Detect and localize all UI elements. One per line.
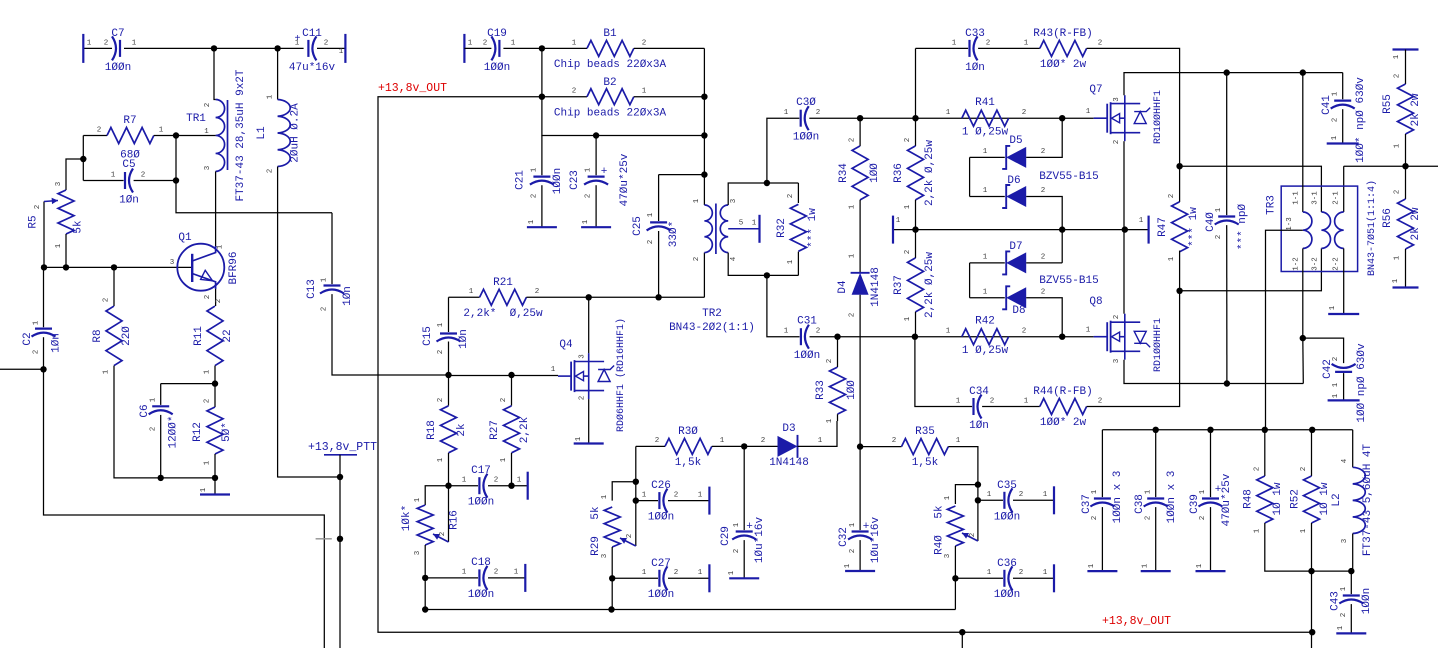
svg-text:2: 2	[1041, 289, 1046, 297]
svg-text:1ØØn: 1ØØn	[468, 589, 494, 601]
svg-text:1: 1	[693, 198, 701, 203]
svg-text:R16: R16	[449, 510, 461, 530]
svg-text:2: 2	[34, 205, 42, 210]
svg-text:33Ø*: 33Ø*	[668, 221, 680, 247]
svg-text:1: 1	[642, 492, 647, 500]
svg-text:R11: R11	[193, 326, 205, 346]
svg-text:3: 3	[1113, 97, 1121, 102]
svg-text:2: 2	[733, 549, 741, 554]
svg-text:R21: R21	[493, 277, 513, 289]
wire Q4 source to ground bar	[588, 399, 590, 443]
svg-text:R42: R42	[975, 316, 995, 328]
svg-text:1: 1	[1091, 489, 1099, 494]
svg-text:1: 1	[1332, 91, 1340, 96]
capacitor C42 100 np0 630v	[1335, 371, 1352, 373]
wire Q7 gate rail	[860, 117, 1094, 119]
svg-text:1: 1	[462, 477, 467, 485]
svg-text:1: 1	[698, 492, 703, 500]
svg-text:+13,8v_PTT: +13,8v_PTT	[308, 441, 377, 454]
svg-text:R8: R8	[92, 329, 104, 342]
svg-text:5k: 5k	[73, 220, 85, 234]
svg-text:1: 1	[733, 522, 741, 527]
resistor R32 *** 1w	[797, 183, 799, 203]
svg-text:R36: R36	[893, 163, 905, 183]
wire R11/C6/R12 junction	[212, 380, 218, 386]
svg-text:1: 1	[983, 289, 988, 297]
svg-text:1ØØn: 1ØØn	[793, 132, 819, 144]
capacitor C37 100n x 3	[1101, 430, 1103, 497]
svg-text:1: 1	[437, 457, 445, 462]
svg-text:1: 1	[500, 457, 508, 462]
svg-text:2: 2	[585, 194, 593, 199]
svg-text:2: 2	[483, 40, 488, 48]
svg-text:TR1: TR1	[186, 113, 206, 125]
svg-text:R55: R55	[1382, 94, 1394, 114]
wire TR2 secondary top loop	[728, 183, 798, 205]
svg-text:2: 2	[103, 298, 111, 303]
svg-text:+: +	[601, 166, 608, 178]
svg-text:C32: C32	[838, 527, 850, 547]
svg-text:C2: C2	[22, 332, 34, 345]
svg-text:1ØØ* 2w: 1ØØ* 2w	[1040, 59, 1087, 71]
svg-text:2: 2	[1394, 190, 1402, 195]
svg-text:1: 1	[204, 460, 212, 465]
svg-text:5k: 5k	[590, 506, 602, 520]
wire PTT net	[339, 455, 341, 648]
transformer TR3 winding 2	[1335, 212, 1344, 248]
svg-text:R34: R34	[838, 163, 850, 183]
svg-text:1ØØ npØ 63Øv: 1ØØ npØ 63Øv	[1356, 343, 1368, 423]
svg-text:2: 2	[500, 398, 508, 403]
svg-text:1: 1	[956, 437, 961, 445]
svg-text:D4: D4	[837, 280, 849, 294]
svg-text:2: 2	[204, 103, 212, 108]
svg-text:+13,8v_OUT: +13,8v_OUT	[378, 82, 447, 95]
wire gray stub	[316, 538, 332, 540]
svg-text:R52: R52	[1290, 489, 1302, 509]
svg-text:1: 1	[1142, 563, 1150, 568]
svg-text:1: 1	[849, 253, 857, 258]
svg-text:1: 1	[1254, 528, 1262, 533]
svg-text:2,2k Ø,25w: 2,2k Ø,25w	[924, 252, 936, 318]
svg-text:1: 1	[1392, 278, 1400, 283]
svg-text:C41: C41	[1321, 95, 1333, 115]
svg-text:2ØuH Ø.2A: 2ØuH Ø.2A	[290, 103, 302, 163]
svg-text:2: 2	[1145, 516, 1153, 521]
svg-text:Q4: Q4	[559, 339, 573, 351]
diode D4 1N4148	[852, 273, 869, 295]
svg-text:1: 1	[987, 491, 992, 499]
svg-text:1-3: 1-3	[1286, 217, 1294, 231]
svg-text:2: 2	[693, 257, 701, 262]
svg-text:2: 2	[1394, 74, 1402, 79]
svg-text:C39: C39	[1189, 494, 1201, 514]
wire feedback rail lower	[1180, 248, 1322, 290]
svg-text:1: 1	[818, 437, 823, 445]
svg-text:2,2k Ø,25w: 2,2k Ø,25w	[924, 140, 936, 206]
svg-text:1: 1	[582, 219, 590, 224]
wire B1/B2 right junction	[703, 48, 705, 205]
svg-text:2: 2	[531, 194, 539, 199]
svg-text:2: 2	[321, 307, 329, 312]
svg-text:1: 1	[1086, 108, 1091, 116]
svg-text:1: 1	[983, 148, 988, 156]
svg-text:1: 1	[896, 217, 901, 225]
svg-text:C7: C7	[111, 28, 124, 40]
svg-text:1: 1	[642, 88, 647, 96]
capacitor C34 10n	[972, 398, 974, 415]
svg-text:1ØØn: 1ØØn	[648, 512, 674, 524]
transformer TR3 winding 1 tap 1-3	[1266, 230, 1303, 430]
svg-text:1 Ø,25w: 1 Ø,25w	[962, 127, 1009, 139]
svg-text:C4Ø: C4Ø	[1205, 212, 1217, 232]
resistor R12 50*	[214, 384, 216, 407]
capacitor C32 10u*16v	[857, 443, 863, 449]
inductor L2 FT37-43 5,60uH 4T	[1352, 430, 1354, 468]
junction	[211, 45, 217, 51]
transistor Q1 BFR96	[177, 244, 224, 291]
resistor R18 2k	[448, 375, 450, 406]
svg-text:1: 1	[204, 369, 212, 374]
svg-text:2: 2	[141, 172, 146, 180]
svg-text:1: 1	[849, 204, 857, 209]
resistor R48 10 1w	[1264, 430, 1266, 476]
svg-text:1: 1	[1024, 398, 1029, 406]
svg-text:BFR96: BFR96	[228, 251, 240, 284]
svg-text:1: 1	[720, 437, 725, 445]
svg-text:1Øn: 1Øn	[342, 286, 354, 306]
svg-text:C38: C38	[1134, 494, 1146, 514]
svg-text:1ØØn: 1ØØn	[105, 62, 131, 74]
resistor R11 22	[207, 306, 223, 365]
svg-text:R32: R32	[776, 218, 788, 238]
svg-text:22Ø: 22Ø	[121, 326, 133, 346]
svg-text:R48: R48	[1243, 489, 1255, 509]
terminal source rail right	[1147, 216, 1149, 244]
svg-text:TR3: TR3	[1266, 195, 1278, 215]
svg-text:D7: D7	[1009, 241, 1022, 253]
svg-text:D6: D6	[1007, 175, 1020, 187]
svg-text:2: 2	[626, 534, 634, 539]
svg-text:+13,8v_OUT: +13,8v_OUT	[1102, 615, 1171, 628]
svg-text:2: 2	[990, 398, 995, 406]
svg-text:C35: C35	[997, 480, 1017, 492]
capacitor C13 10n	[331, 213, 333, 284]
svg-text:1ØØn x 3: 1ØØn x 3	[1112, 471, 1124, 524]
capacitor C15 10n	[448, 297, 450, 332]
svg-text:2: 2	[849, 549, 857, 554]
zener D8 BZV55-B15	[969, 263, 971, 298]
wire TR1 tap	[176, 135, 216, 137]
capacitor C43 100n	[1350, 571, 1352, 594]
svg-text:1: 1	[784, 109, 789, 117]
capacitor C23 470u*25v	[595, 136, 597, 176]
svg-text:2: 2	[1022, 109, 1027, 117]
inductor TR1 FT37-43 28,35uH 9x2T	[214, 48, 216, 99]
svg-text:1: 1	[946, 328, 951, 336]
svg-text:R37: R37	[893, 275, 905, 295]
wire Q7 source	[1123, 141, 1125, 229]
svg-text:2: 2	[33, 350, 41, 355]
capacitor C18 100n	[422, 575, 428, 581]
svg-text:2: 2	[761, 437, 766, 445]
svg-text:C21: C21	[515, 170, 527, 190]
svg-text:2: 2	[1022, 328, 1027, 336]
wire base rail	[44, 266, 193, 268]
wire Q1 emitter to R11	[215, 289, 217, 306]
svg-text:1: 1	[1043, 491, 1048, 499]
svg-text:1: 1	[462, 569, 467, 577]
capacitor C5 10n	[82, 136, 84, 181]
svg-text:1-2: 1-2	[1293, 257, 1301, 271]
svg-text:47Øu*25v: 47Øu*25v	[619, 153, 631, 206]
svg-text:1: 1	[217, 244, 225, 249]
svg-text:3: 3	[414, 550, 422, 555]
svg-text:Q1: Q1	[178, 232, 192, 244]
svg-text:1: 1	[1329, 305, 1337, 310]
svg-text:BN43-2Ø2(1:1): BN43-2Ø2(1:1)	[669, 322, 755, 334]
svg-text:R47: R47	[1157, 217, 1169, 237]
svg-text:1Ø 1w: 1Ø 1w	[1319, 482, 1331, 515]
svg-text:5Ø*: 5Ø*	[221, 422, 233, 442]
wire Q8 drain rail	[1124, 360, 1303, 384]
svg-text:RD1ØØHHF1: RD1ØØHHF1	[1152, 318, 1164, 372]
svg-text:2: 2	[324, 40, 329, 48]
svg-text:1: 1	[132, 40, 137, 48]
svg-text:3: 3	[944, 553, 952, 558]
svg-text:22: 22	[222, 329, 234, 342]
wire Q8 source	[1123, 230, 1125, 314]
svg-text:3: 3	[730, 198, 738, 203]
svg-text:1: 1	[1196, 563, 1204, 568]
svg-text:2: 2	[1098, 398, 1103, 406]
svg-text:2: 2	[1332, 118, 1340, 123]
svg-text:1-1: 1-1	[1293, 191, 1301, 205]
resistor R27 2,2k	[511, 375, 513, 406]
svg-text:2: 2	[494, 569, 499, 577]
transistor Q8 RD100HHF1	[1094, 336, 1108, 338]
wire choke bottom node	[1308, 568, 1314, 574]
trimmer R5 wiper	[43, 202, 45, 268]
resistor R56 2k 2w	[1405, 166, 1407, 199]
svg-text:2: 2	[849, 138, 857, 143]
svg-text:4: 4	[730, 256, 738, 261]
zener D5 BZV55-B15	[970, 156, 1005, 158]
ferrite bead B1 Chip beads 220x3A	[542, 47, 587, 49]
svg-text:1: 1	[1024, 40, 1029, 48]
capacitor C41 100* np0 630v	[1342, 73, 1344, 100]
trimmer R16 10k*	[425, 486, 448, 505]
svg-text:FT37-43 5,6ØuH 4T: FT37-43 5,6ØuH 4T	[1362, 443, 1374, 556]
svg-text:1: 1	[849, 522, 857, 527]
svg-text:BZV55-B15: BZV55-B15	[1039, 275, 1098, 287]
svg-text:R3Ø: R3Ø	[678, 426, 698, 438]
svg-text:2: 2	[642, 40, 647, 48]
capacitor C2 10n	[43, 267, 45, 327]
wire C34 drop	[915, 337, 972, 407]
svg-text:1ØØ* npØ 63Øv: 1ØØ* npØ 63Øv	[1355, 77, 1367, 163]
wire R40 to ground bus	[954, 578, 956, 609]
svg-text:R5: R5	[28, 215, 40, 228]
svg-text:2: 2	[1168, 194, 1176, 199]
svg-text:1Øn: 1Øn	[965, 62, 985, 74]
svg-text:47Øu*25v: 47Øu*25v	[1221, 473, 1233, 526]
resistor R8 220	[113, 267, 115, 306]
svg-text:1ØØn: 1ØØn	[994, 589, 1020, 601]
svg-text:2: 2	[1041, 148, 1046, 156]
svg-text:2: 2	[535, 288, 540, 296]
svg-text:2: 2	[1254, 467, 1262, 472]
zener D6 BZV55-B15	[969, 157, 971, 196]
wire supply stub 2	[961, 632, 963, 648]
junction R5 tap	[80, 156, 86, 162]
svg-text:2: 2	[904, 250, 912, 255]
svg-text:1: 1	[1088, 563, 1096, 568]
svg-text:2: 2	[204, 295, 212, 300]
svg-text:R33: R33	[815, 380, 827, 400]
svg-text:C3Ø: C3Ø	[796, 97, 816, 109]
svg-text:1: 1	[1394, 143, 1402, 148]
svg-text:1: 1	[698, 569, 703, 577]
svg-text:1: 1	[468, 40, 473, 48]
transistor Q4 RD06HHF1	[558, 375, 571, 377]
svg-text:1ØØn x 3: 1ØØn x 3	[1166, 471, 1178, 524]
svg-text:C29: C29	[720, 526, 732, 546]
svg-text:C27: C27	[651, 558, 671, 570]
svg-text:B2: B2	[603, 77, 616, 89]
wire TR3 2-1 drop	[1343, 166, 1345, 212]
svg-text:Chip beads 22Øx3A: Chip beads 22Øx3A	[554, 107, 667, 119]
svg-text:Q8: Q8	[1089, 296, 1102, 308]
svg-text:3: 3	[55, 181, 63, 186]
svg-text:1Øn: 1Øn	[969, 420, 989, 432]
wire R29 to ground bus	[611, 578, 613, 609]
transistor Q7 RD100HHF1	[1094, 117, 1108, 119]
svg-text:2: 2	[1199, 516, 1207, 521]
svg-text:1: 1	[469, 288, 474, 296]
resistor R36 2,2k 0,25w	[915, 48, 917, 146]
svg-text:2: 2	[204, 399, 212, 404]
svg-text:1: 1	[159, 127, 164, 135]
wire ground bus	[425, 578, 955, 610]
svg-text:2: 2	[437, 350, 445, 355]
svg-text:1Øn: 1Øn	[51, 333, 63, 353]
wire supply to C21/C23 rail	[542, 97, 705, 136]
capacitor C7	[83, 47, 112, 49]
wire R7/C5 junction to C13 rail	[173, 132, 179, 138]
svg-text:1: 1	[1332, 393, 1340, 398]
wire TR2 secondary bottom loop	[728, 253, 798, 276]
wire ground rail R8/C6/R12	[161, 477, 215, 479]
svg-text:C13: C13	[306, 279, 318, 299]
svg-text:2: 2	[849, 313, 857, 318]
svg-text:1: 1	[200, 487, 208, 492]
svg-text:C23: C23	[569, 170, 581, 190]
junction	[274, 45, 280, 51]
svg-text:C19: C19	[487, 28, 507, 40]
svg-text:1: 1	[904, 316, 912, 321]
svg-text:2: 2	[674, 492, 679, 500]
svg-text:C25: C25	[632, 216, 644, 236]
svg-text:1: 1	[752, 220, 757, 228]
wire output rail right	[1344, 165, 1438, 167]
svg-text:1: 1	[826, 418, 834, 423]
svg-text:1: 1	[983, 187, 988, 195]
svg-text:2: 2	[969, 533, 977, 538]
svg-text:1Øn: 1Øn	[119, 195, 139, 207]
svg-text:R35: R35	[915, 426, 935, 438]
resistor R42 1 0,25w	[962, 329, 1009, 345]
svg-text:3-1: 3-1	[1312, 191, 1320, 205]
svg-text:C26: C26	[651, 480, 671, 492]
svg-text:1: 1	[295, 40, 300, 48]
svg-text:1: 1	[267, 94, 275, 99]
svg-text:FT37-43 28,35uH 9x2T: FT37-43 28,35uH 9x2T	[235, 69, 247, 201]
svg-text:C6: C6	[139, 404, 151, 417]
svg-text:1: 1	[728, 570, 736, 575]
resistor R55 2k 2w	[1393, 48, 1419, 50]
svg-text:2: 2	[439, 532, 447, 537]
svg-text:C15: C15	[422, 326, 434, 346]
svg-text:1: 1	[601, 494, 609, 499]
svg-text:R18: R18	[426, 420, 438, 440]
svg-text:C34: C34	[969, 386, 989, 398]
trimmer R29 5k	[612, 482, 636, 501]
svg-text:1: 1	[150, 397, 158, 402]
svg-text:3: 3	[204, 165, 212, 170]
svg-text:5k: 5k	[934, 505, 946, 519]
svg-text:1: 1	[585, 167, 593, 172]
capacitor C29 10u*16v	[741, 443, 747, 449]
wire TR3 1-2 to C42 and Q8 drain	[1300, 335, 1306, 341]
svg-text:1,5k: 1,5k	[675, 457, 702, 469]
svg-text:1: 1	[55, 243, 63, 248]
svg-text:R56: R56	[1382, 208, 1394, 228]
svg-text:C37: C37	[1081, 494, 1093, 514]
diode D3 1N4148	[744, 445, 777, 447]
svg-text:C17: C17	[471, 465, 491, 477]
resistor R35 1,5k	[860, 446, 901, 448]
svg-text:3-2: 3-2	[1312, 257, 1320, 271]
svg-text:2: 2	[826, 359, 834, 364]
svg-text:1: 1	[1145, 489, 1153, 494]
svg-text:1Øu*16v: 1Øu*16v	[754, 517, 766, 564]
svg-text:C43: C43	[1330, 591, 1342, 611]
capacitor C35 100n	[978, 499, 1003, 501]
svg-text:*** 1w: *** 1w	[807, 208, 819, 248]
svg-text:1N4148: 1N4148	[769, 457, 809, 469]
wire top rail	[214, 47, 278, 49]
svg-text:2: 2	[1019, 491, 1024, 499]
capacitor C21 100n	[541, 136, 543, 176]
svg-text:3: 3	[579, 354, 587, 359]
svg-text:2-2: 2-2	[1333, 257, 1341, 271]
svg-text:2,2k* Ø,25w: 2,2k* Ø,25w	[463, 308, 543, 320]
transformer TR2 center tap pin5	[728, 228, 759, 230]
svg-text:1: 1	[1043, 569, 1048, 577]
wire left input stub	[0, 368, 44, 370]
svg-text:1: 1	[944, 495, 952, 500]
svg-text:1: 1	[528, 219, 536, 224]
svg-text:1ØØn: 1ØØn	[1361, 588, 1373, 614]
svg-text:R27: R27	[489, 420, 501, 440]
svg-text:1ØØn: 1ØØn	[994, 512, 1020, 524]
inductor L1 20uH 0.2A	[277, 48, 279, 99]
svg-text:2-1: 2-1	[1333, 191, 1341, 205]
svg-text:1Ø 1w: 1Ø 1w	[1272, 482, 1284, 515]
capacitor C17 100n	[445, 483, 451, 489]
wire feedback rail upper	[1180, 166, 1322, 212]
